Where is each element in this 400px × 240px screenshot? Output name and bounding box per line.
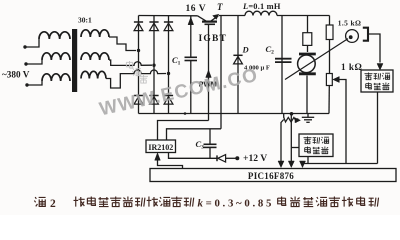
capacitor C2 4000uF: [275, 58, 292, 60]
wire RA to machine: [307, 45, 309, 52]
sampling resistor (zigzag with arrow): [283, 114, 285, 118]
decorative watermark char 2: [132, 68, 141, 75]
diode (12V feed, pointing left): [216, 155, 218, 161]
wire rectifier leg 3: [168, 16, 170, 114]
wire secondary b to rectifier leg 2 (hop over leg1): [109, 60, 152, 65]
optocoupler box 1: shaping photoelectric isolation: [361, 70, 393, 92]
svg-text:IR2102: IR2102: [148, 143, 173, 152]
wire IR2102 Vcc to diode: [169, 153, 217, 159]
wire bus tap to PIC: [290, 114, 292, 162]
wire pot wiper down to PIC line: [339, 80, 347, 164]
caption: suited-to-simulate state-of-charge (part 1): [74, 197, 85, 207]
capacitor C1: [185, 56, 198, 58]
wire phase A: [25, 39, 39, 47]
svg-text:IGBT: IGBT: [199, 34, 228, 44]
text row: zheng-xing-guang: [304, 137, 312, 144]
svg-text:2: 2: [50, 198, 56, 210]
transistor T (IGBT): [198, 16, 207, 21]
wire IGBT emitter sense to IR2102: [220, 16, 222, 129]
wire C2 branch: [281, 16, 283, 114]
transformer T1 primary winding B: [42, 53, 70, 60]
text row: zheng-xing-guang: [365, 73, 373, 80]
electromechanical load M (circle with brush bars): [299, 53, 316, 56]
wire phase B: [26, 60, 42, 64]
wire C3 bottom: [209, 147, 211, 158]
text row: dian-ge-li: [366, 83, 372, 89]
svg-text:30:1: 30:1: [78, 16, 92, 25]
node junction leg2: [152, 63, 155, 66]
node junction leg1: [137, 49, 140, 52]
svg-text:1.5 kΩ: 1.5 kΩ: [338, 19, 362, 28]
wire IR2102 pin to emitter line: [167, 129, 222, 140]
node: phase B input terminal: [24, 62, 27, 65]
resistor 1.5 kOhm: [326, 25, 333, 40]
wire PIC to IR2102 input: [158, 159, 183, 169]
wire sample to PIC: [281, 120, 284, 163]
diode VD6 (lower bridge arm): [164, 95, 173, 97]
wire C3 top: [209, 129, 211, 144]
potentiometer 1 kOhm: [326, 74, 332, 86]
transformer T1 secondary winding b: [81, 53, 109, 60]
arrow: PWM drive (up): [206, 70, 212, 78]
wire: top DC rail: [139, 15, 198, 17]
wire branch A upper: [307, 16, 309, 33]
lamp / encoder disc: [346, 30, 359, 43]
wiper arrow of 1 kOhm pot: [333, 77, 340, 83]
photo sensor bracket: [363, 28, 368, 41]
node: phase C input terminal: [25, 83, 28, 86]
diode VD4 (lower bridge arm): [134, 95, 143, 97]
svg-text:+12 V: +12 V: [243, 153, 267, 164]
wire box2 bottom pin: [307, 157, 309, 164]
wire box2 left pin: [291, 147, 299, 149]
wire pot to bus: [328, 86, 330, 114]
caption: battery simulation power supply chars: [290, 197, 300, 207]
wire between resistors: [329, 40, 331, 74]
svg-text:T: T: [217, 2, 223, 12]
wire branch B upper: [329, 16, 331, 26]
arrow: 16 V rail voltage marker: [188, 17, 194, 25]
arrow into PIC (bus tap): [288, 161, 294, 168]
text row: dian-ge-li: [305, 147, 311, 153]
diode VD1 (upper bridge arm): [134, 21, 143, 23]
wire box1 bottom to PIC line: [377, 92, 379, 164]
resistor RA: [303, 33, 312, 46]
wire secondary a to rectifier leg 1: [109, 37, 136, 51]
wire sensor to isolator 1: [368, 34, 380, 63]
node bus tap: [290, 112, 294, 116]
transformer T1 secondary winding c: [81, 71, 106, 78]
svg-text:1 kΩ: 1 kΩ: [341, 62, 362, 72]
wire rectifier leg 2: [153, 16, 155, 114]
wire collector line to PIC: [303, 163, 378, 165]
optocoupler box 2: shaping photoelectric isolation: [299, 134, 333, 157]
decorative watermark char 1: [126, 61, 132, 68]
svg-text:16 V: 16 V: [186, 4, 207, 14]
node dot in encoder disc: [349, 35, 353, 39]
node speck on bus: [184, 112, 187, 115]
wire IR2102 pin to gate line: [158, 121, 209, 141]
diode VD5 (lower bridge arm): [149, 95, 158, 97]
wire rectifier leg 1: [138, 16, 140, 114]
wire: bottom ground bus: [139, 113, 330, 115]
svg-text:PIC16F876: PIC16F876: [248, 171, 294, 181]
caption: de char: [278, 197, 286, 206]
capacitor C3: [204, 143, 217, 145]
transformer T1 secondary winding a: [81, 30, 109, 37]
caption: coefficient chars (part 2): [147, 197, 158, 207]
node +12V terminal: [235, 156, 239, 160]
caption: Fig char: [34, 197, 45, 206]
ground: [307, 114, 309, 118]
driver IC IR2102: [146, 140, 176, 153]
transformer T1 core: [72, 29, 77, 92]
svg-text:D: D: [242, 45, 249, 55]
arrow into PIC (sample): [278, 161, 284, 168]
wire C1 branch upper: [190, 16, 192, 58]
microcontroller PIC16F876: [150, 169, 396, 182]
svg-text:~380 V: ~380 V: [2, 70, 30, 80]
wire phase C: [27, 81, 42, 85]
svg-text:k=0.3~0.85: k=0.3~0.85: [198, 198, 275, 210]
svg-text:L=0.1 mH: L=0.1 mH: [242, 2, 281, 11]
transformer T1 primary winding C: [42, 74, 70, 81]
wire secondary c to rectifier leg 3 (hops over leg1, leg2): [106, 70, 166, 88]
wire IGBT gate to IR2102: [208, 24, 210, 120]
arrow into PIC (isolators): [300, 161, 306, 168]
transformer T1 primary winding A: [39, 32, 70, 39]
wire wiper diagonal linkage: [285, 39, 348, 80]
diode VD3 (upper bridge arm): [164, 21, 173, 23]
diode D (freewheeling): [233, 54, 242, 56]
wire diode to +12V terminal: [226, 157, 236, 159]
inductor L 0.1 mH: [245, 11, 277, 15]
wire diode D branch: [237, 16, 239, 114]
wire machine to ground bus: [306, 76, 308, 114]
diode VD2 (upper bridge arm): [149, 21, 158, 23]
decorative watermark char 3: [139, 75, 148, 83]
wire C1 branch lower: [190, 61, 192, 114]
node: phase A input terminal: [23, 45, 26, 48]
node junction leg3: [167, 72, 170, 75]
arrow into isolator 1: [377, 64, 383, 71]
